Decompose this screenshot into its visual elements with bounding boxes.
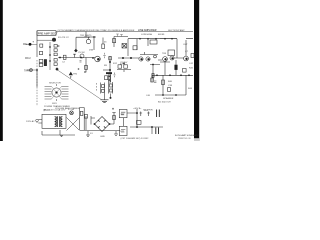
svg-text:OUT: OUT: [183, 44, 188, 46]
svg-text:+40V B+: +40V B+: [133, 108, 142, 110]
svg-text:SELECTOR: SELECTOR: [49, 83, 61, 85]
svg-text:SECTION: SECTION: [168, 30, 178, 32]
svg-text:PL-1 6.3V 0.15A 117V: PL-1 6.3V 0.15A 117V: [44, 109, 66, 112]
svg-text:TR1 2SB75: TR1 2SB75: [80, 35, 92, 37]
svg-text:LOW HIGH: LOW HIGH: [141, 34, 152, 36]
svg-text:47K: 47K: [120, 64, 124, 66]
svg-text:2SB: 2SB: [89, 50, 94, 52]
svg-text:P AMP: P AMP: [178, 29, 185, 32]
svg-text:40V: 40V: [121, 114, 125, 116]
svg-text:PRINTED IN: PRINTED IN: [178, 138, 191, 140]
svg-text:8Ω 16Ω OUT: 8Ω 16Ω OUT: [158, 102, 171, 104]
svg-text:120V AC: 120V AC: [26, 120, 35, 123]
svg-text:SW1: SW1: [52, 103, 58, 105]
svg-text:MIC2: MIC2: [25, 57, 31, 60]
svg-text:GND: GND: [100, 136, 105, 138]
svg-text:4Ω 8Ω: 4Ω 8Ω: [158, 34, 165, 36]
svg-text:R1 47K C2: R1 47K C2: [58, 37, 69, 39]
svg-text:NO 210 SERIES B AMPLIFIER: NO 210 SERIES B AMPLIFIER: [104, 29, 135, 32]
svg-text:PRE AMP SECT: PRE AMP SECT: [38, 32, 58, 36]
svg-text:C5 1M: C5 1M: [78, 52, 85, 54]
svg-text:(C97 10000MF 50V) D1 R52: (C97 10000MF 50V) D1 R52: [121, 138, 150, 140]
svg-text:MIC: MIC: [23, 43, 28, 46]
svg-text:B-210 AMP SCHEMATIC: B-210 AMP SCHEMATIC: [175, 134, 200, 137]
svg-text:F1 2A: F1 2A: [68, 108, 74, 111]
svg-text:SPEAKER: SPEAKER: [163, 97, 174, 100]
svg-text:POWER TRANSFORMER: POWER TRANSFORMER: [44, 105, 70, 108]
svg-text:→: →: [44, 103, 46, 105]
svg-text:TAPE: TAPE: [24, 70, 30, 73]
svg-text:SCHEMATIC DIAGRAM MODEL: SCHEMATIC DIAGRAM MODEL: [62, 29, 95, 32]
svg-text:LINE AMPLIFIER: LINE AMPLIFIER: [138, 29, 157, 32]
